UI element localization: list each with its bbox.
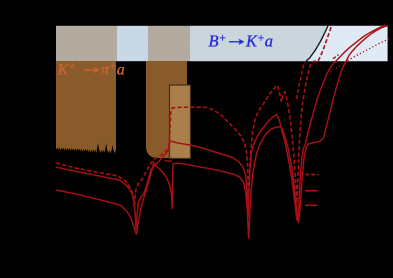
gray band segment left (over brown column A) <box>56 26 117 61</box>
dotted curve C4 <box>330 38 391 72</box>
tan overlay box <box>170 85 191 159</box>
solid curve C2 <box>56 25 386 229</box>
orange label <box>57 61 125 79</box>
short horizontal red segment left of V <box>165 160 173 162</box>
blue label <box>209 32 274 51</box>
legend keys <box>305 175 318 206</box>
blue band segment (gap between brown columns) <box>117 26 148 61</box>
black boundary curve between gray overlay and bright blue <box>306 26 328 61</box>
solid curve C3 <box>56 26 388 239</box>
bright blue band segment right <box>306 26 388 61</box>
brown column A with ragged bottom <box>56 61 116 154</box>
gray band segment mid (over brown column B) <box>148 26 190 61</box>
dashed curve C1 <box>56 25 332 207</box>
gray-blue band segment (gray overlay over blue band) <box>190 26 328 61</box>
extra dashes near band bottom right of black curve <box>333 55 339 59</box>
faint grid lines in gray segments <box>56 26 190 61</box>
second steep dashed segment left of dip3 ascent <box>297 62 305 99</box>
deeper notches in column A ragged bottom <box>96 143 115 157</box>
brown column B with rounded bottom-left <box>146 61 187 158</box>
